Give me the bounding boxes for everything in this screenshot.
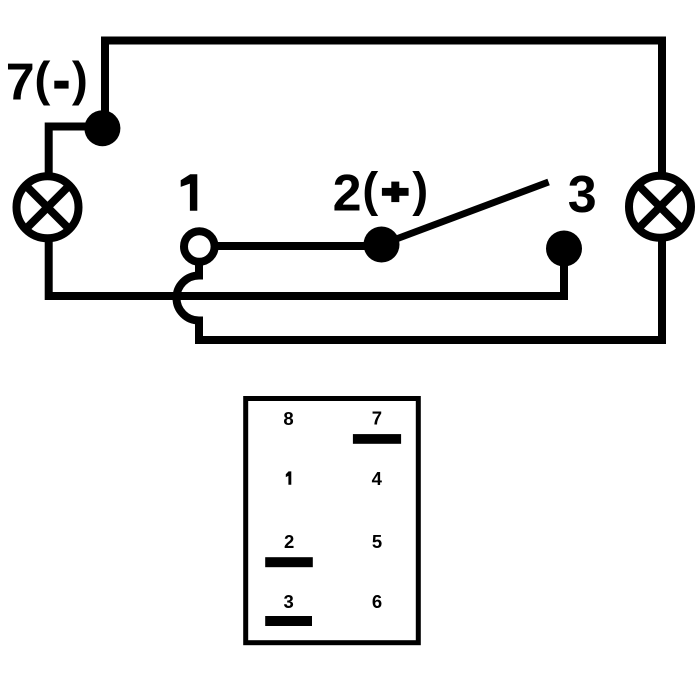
- label 1: [181, 174, 198, 210]
- svg-text:7: 7: [6, 53, 35, 111]
- wire top loop from node 7 up across to right lamp: [105, 41, 662, 176]
- label 7(-): [6, 53, 88, 111]
- pin 3 terminal bar: [265, 616, 312, 626]
- svg-text:6: 6: [372, 591, 382, 612]
- svg-text:4: 4: [372, 468, 383, 489]
- pin 5 label: [372, 531, 382, 552]
- svg-text:8: 8: [283, 408, 293, 429]
- pin 3 label: [284, 591, 294, 612]
- svg-text:3: 3: [568, 166, 597, 224]
- svg-text:5: 5: [372, 531, 382, 552]
- pin 2 terminal bar: [265, 557, 313, 567]
- pin 6 label: [372, 591, 382, 612]
- label 2(+): [333, 164, 429, 223]
- terminal 1 open circle: [184, 231, 215, 262]
- wire from left lamp bottom right to terminal 3: [49, 238, 564, 296]
- connector body outline: [246, 399, 419, 643]
- pin 1 label: [286, 471, 292, 484]
- wire from terminal 1 to terminal 2: [199, 242, 382, 250]
- svg-text:): ): [72, 54, 88, 107]
- terminal 2 dot: [364, 227, 400, 263]
- lamp L1 left indicator: [17, 176, 79, 238]
- wire from node 7 dot left and down to left lamp: [49, 127, 104, 177]
- pin 7 label: [372, 408, 382, 429]
- svg-text:7: 7: [372, 408, 382, 429]
- switch lever from terminal 2 to terminal 3 side: [382, 182, 549, 245]
- wire hop jump from terminal 1 over lamp wire: [177, 260, 200, 344]
- lamp L2 right indicator: [629, 176, 691, 238]
- pin 7 terminal bar: [353, 434, 401, 444]
- pin 4 label: [372, 468, 383, 489]
- svg-text:2: 2: [284, 531, 294, 552]
- wire bottom run to right lamp: [199, 238, 662, 340]
- pin 2 label: [284, 531, 294, 552]
- svg-text:(: (: [362, 164, 378, 217]
- pin 8 label: [283, 408, 293, 429]
- terminal 3 dot: [546, 231, 582, 267]
- svg-text:2: 2: [333, 165, 362, 223]
- svg-text:): ): [412, 164, 428, 217]
- svg-text:(: (: [34, 54, 50, 107]
- node 7 junction dot: [84, 110, 120, 146]
- label 3: [568, 166, 597, 224]
- svg-text:3: 3: [284, 591, 294, 612]
